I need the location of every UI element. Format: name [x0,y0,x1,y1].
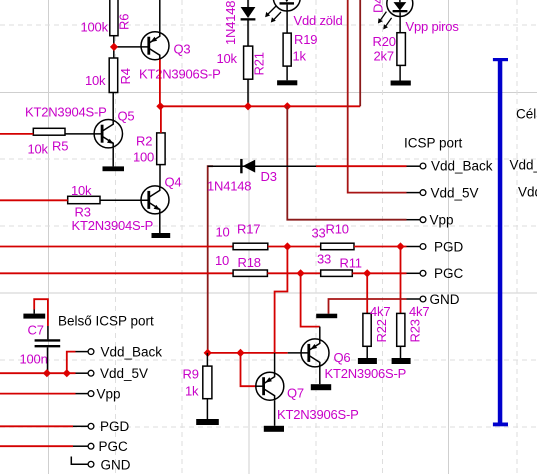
svg-text:PGC: PGC [99,439,129,454]
resistor R6 [81,0,132,36]
wire R10 to PGD pin [354,246,407,248]
ground Q5 [103,166,125,171]
svg-text:33: 33 [317,251,331,266]
svg-text:R5: R5 [52,139,68,154]
svg-text:4k7: 4k7 [370,304,390,319]
wire Vdd_Back branch [67,352,76,374]
svg-text:Vdd_Back: Vdd_Back [431,159,493,174]
svg-text:1N4148: 1N4148 [223,1,238,45]
LED green [265,0,342,28]
wire LED to R19 [286,5,288,33]
svg-text:KT2N3906S-P: KT2N3906S-P [277,407,359,422]
pin GND left [88,457,131,472]
bus bar blue [493,58,508,426]
svg-text:Q3: Q3 [174,42,191,57]
wire R3 to Q4 base [100,199,150,201]
junction PGD/R23 branch [396,242,404,250]
wire R19 to ground [286,66,288,80]
diode D3 1N4148 [207,159,277,193]
junction Q3/R2/bus [156,102,164,110]
resistor R5 [28,128,69,156]
svg-text:ICSP port: ICSP port [404,136,463,151]
svg-text:10k: 10k [71,183,92,198]
wire base net y353 [208,352,288,354]
pin Vdd_5V [407,185,479,200]
ground Q4 [152,233,171,238]
wire Q6 emitter lead [319,327,321,340]
wire GND row [329,299,407,314]
wire Q7 base [241,353,256,386]
pin PGC left [73,439,128,454]
svg-text:10k: 10k [217,51,238,66]
wire PGC to Q6 emitter [301,273,320,326]
svg-text:Vpp: Vpp [97,386,121,401]
junction C7/Vdd_5V row [43,369,51,377]
LED D4 red [371,0,460,34]
pin PGC [407,266,464,281]
wire R18 to R11 [267,272,320,274]
wire R9 to ground [206,399,208,419]
svg-text:Belső ICSP port: Belső ICSP port [58,313,154,328]
svg-text:Vpp: Vpp [430,213,454,228]
svg-text:Vdd_Back: Vdd_Back [510,158,537,173]
svg-text:R2: R2 [136,134,152,149]
resistor R10 [312,221,355,249]
svg-text:R18: R18 [238,255,261,270]
svg-text:PGC: PGC [434,266,464,281]
wire R20 to ground [399,65,401,80]
junction R21/bus [244,102,252,110]
transistor Q5 [25,105,134,148]
wire Vpp row left [0,393,76,395]
svg-text:R17: R17 [237,221,260,236]
junction bus/Vpp branch [283,102,291,110]
svg-text:2k7: 2k7 [374,48,394,63]
ground R9 [196,419,219,425]
ground Q7 [264,426,284,432]
svg-text:33: 33 [312,225,326,240]
wire R3 left [0,199,68,201]
svg-text:R10: R10 [326,221,349,236]
wire R22 to ground [366,346,368,358]
svg-text:Vpp piros: Vpp piros [406,19,460,34]
diode D1 1N4148 [223,1,256,45]
wire R2 to Q4 collector [159,165,161,187]
wire diode D1 top [247,0,249,7]
junction R6/R4/Q3 [110,43,118,51]
svg-text:R11: R11 [340,256,362,271]
wire R17 to R10 [268,246,321,248]
svg-text:KT2N3904S-P: KT2N3904S-P [72,218,154,233]
resistor R17 [216,221,268,249]
svg-text:1N4148: 1N4148 [207,178,251,193]
svg-text:100n: 100n [20,351,48,366]
wire R11 to PGC pin [352,272,406,274]
capacitor C7 [20,322,61,366]
svg-text:GND: GND [101,457,131,472]
resistor R19 [283,32,317,66]
pin Vpp left [76,386,121,401]
wire R5 to Q5 base [65,133,103,135]
svg-text:R22: R22 [374,319,389,342]
resistor R22 [363,304,390,346]
pin Vpp [407,213,454,228]
svg-text:KT2N3904S-P: KT2N3904S-P [25,105,107,120]
svg-text:KT2N3906S-P: KT2N3906S-P [139,67,221,82]
wire Q6 collector to ground [319,367,321,384]
wire vertical into bus corner [359,0,361,106]
svg-text:Vdd_Back: Vdd_Back [101,344,163,359]
pin Vdd_Back [407,159,493,174]
wire Q5 emitter to ground [112,148,114,167]
ground GND row [316,314,337,319]
svg-text:C7: C7 [28,322,44,337]
wire C7 bottom [47,347,49,373]
transistor Q6 [301,339,406,381]
pin Vdd_Back left [76,344,163,359]
svg-text:R6: R6 [117,14,132,30]
wire vertical to Vdd_5V [348,0,407,193]
resistor R18 [215,253,267,277]
svg-text:10k: 10k [85,73,106,88]
svg-text:Célalkalmazás: Célalkalmazás [516,106,537,121]
svg-text:R9: R9 [183,367,199,382]
svg-text:Vdd_5V: Vdd_5V [100,366,148,381]
wire Vpp corridor [287,106,406,219]
wire D3 anode corner [208,166,213,353]
wire R2 top [160,106,162,133]
svg-text:KT2N3906S-P: KT2N3906S-P [325,366,407,381]
svg-text:R20: R20 [373,34,396,49]
svg-text:Q5: Q5 [118,109,135,124]
ground Q6 [311,384,331,390]
wire Q7 collector to ground [274,400,276,426]
wire C7 top hook [34,299,48,326]
junction PGC/Q6 branch [297,269,305,277]
svg-text:4k7: 4k7 [409,304,429,319]
pin GND [407,292,460,307]
svg-text:Q7: Q7 [287,385,304,400]
svg-text:Vdd_5V: Vdd_5V [431,185,479,200]
wire PGC row left [0,272,233,274]
wire Q7 emitter lead [274,353,276,373]
svg-text:R19: R19 [294,32,317,47]
wire D4 to R20 [399,12,401,32]
svg-text:D4: D4 [371,0,386,13]
svg-text:Q6: Q6 [334,350,351,365]
wire PGD row left [0,246,233,248]
wire R5 left [0,133,33,135]
svg-text:GND: GND [430,292,460,307]
wire Q3 collector down [159,60,161,107]
svg-text:Vdd zöld: Vdd zöld [294,13,343,28]
wire R6 to R4 [113,36,115,58]
junction Vdd_Back branch [63,369,71,377]
svg-text:PGD: PGD [100,419,130,434]
wire Q3 base [114,46,150,48]
svg-text:R21: R21 [252,52,267,75]
resistor R9 [183,353,212,399]
ground R19 [277,80,297,85]
wire Q4 emitter to ground [159,214,161,233]
wire R22 drop [366,273,368,313]
wire PGC row left connector [0,445,73,447]
wire GND left corner [71,457,88,465]
svg-text:10: 10 [215,253,229,268]
wire R21 to bus [247,79,249,106]
svg-text:Q4: Q4 [165,175,182,190]
ground R20 [391,81,411,86]
transistor Q4 [72,175,182,234]
svg-text:100k: 100k [81,20,109,35]
pin Vdd_5V left [76,366,149,381]
wire Q3 emitter up [159,0,161,32]
svg-text:Vdd_5V: Vdd_5V [518,184,537,199]
wire Vdd_5V row left [0,372,76,374]
svg-text:PGD: PGD [434,239,464,254]
pin PGD [407,239,464,254]
wire bus y106 [160,105,360,107]
resistor R2 [133,133,165,165]
svg-text:R4: R4 [118,68,133,84]
junction Q7 base branch [236,349,244,357]
svg-text:D3: D3 [261,169,277,184]
svg-text:R23: R23 [408,319,423,342]
junction PGC/R22 branch [363,269,371,277]
wire PGD to Q7 emitter jog [275,247,288,353]
ground C7 power bar [23,314,45,319]
resistor R11 [317,251,362,276]
wire D1 to R21 [247,21,249,47]
wire Vdd_Back row [208,165,316,167]
svg-text:100: 100 [133,150,154,165]
svg-text:10: 10 [216,225,230,240]
wire PGD row left connector [0,425,73,427]
transistor Q7 [256,372,359,422]
svg-text:10k: 10k [28,142,49,157]
junction R9/base net [204,349,212,357]
svg-text:1k: 1k [185,384,199,399]
resistor R3 [68,183,100,220]
resistor R21 [217,46,267,79]
ground R22 [358,358,377,364]
pin PGD left [73,419,130,434]
resistor R23 [397,304,430,346]
junction PGD/Q7 branch [283,242,291,250]
resistor R20 [373,33,406,66]
svg-text:1k: 1k [293,49,307,64]
wire R4 to Q5 collector [112,93,114,121]
transistor Q3 [139,32,221,82]
resistor R4 [85,58,133,93]
wire R23 to ground [400,346,402,358]
wire R23 drop [400,247,402,314]
ground R23 [392,358,411,364]
